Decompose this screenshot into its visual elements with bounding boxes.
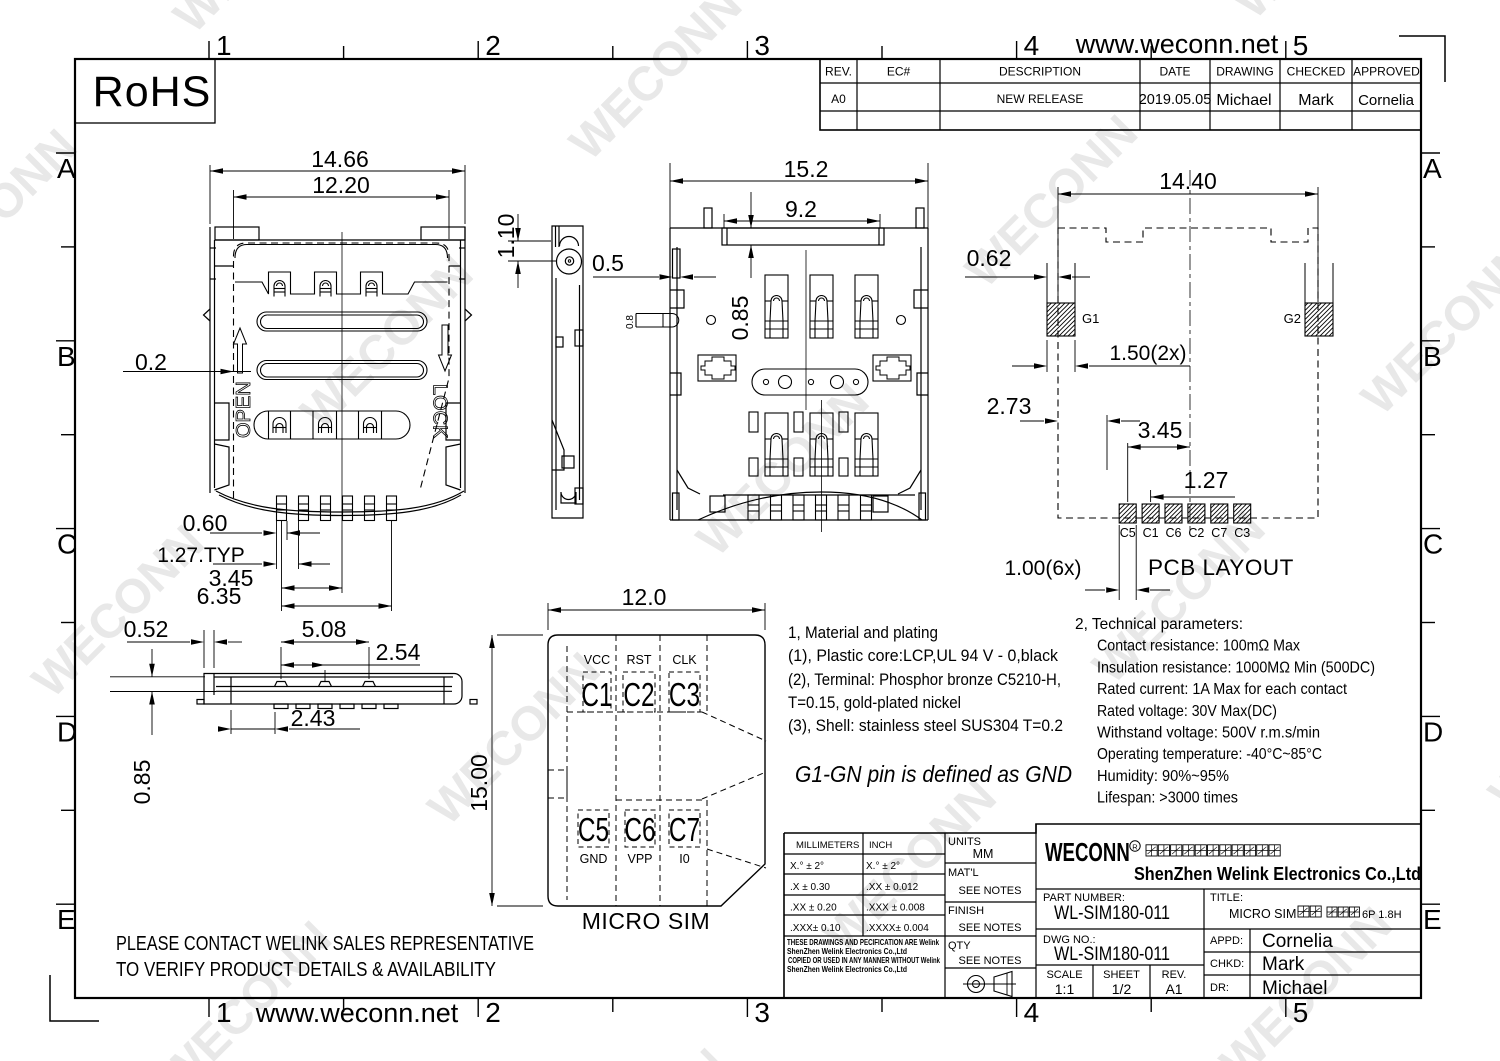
dim 2.73 xyxy=(1106,415,1108,470)
svg-text:B: B xyxy=(57,341,76,372)
svg-text:D: D xyxy=(57,716,77,747)
svg-text:9.2: 9.2 xyxy=(785,196,817,222)
svg-text:1:1: 1:1 xyxy=(1055,981,1075,997)
svg-text:0.85: 0.85 xyxy=(727,296,753,341)
svg-text:REV.: REV. xyxy=(825,65,852,79)
side view hinge xyxy=(557,249,582,274)
svg-text:NEW RELEASE: NEW RELEASE xyxy=(997,92,1084,106)
top view centerline xyxy=(341,232,343,530)
svg-text:1.50(2x): 1.50(2x) xyxy=(1109,342,1186,365)
svg-text:2: 2 xyxy=(485,30,501,61)
sim contact C7 xyxy=(669,810,700,847)
svg-text:VPP: VPP xyxy=(627,852,652,866)
third angle projection symbol xyxy=(968,976,985,993)
svg-text:.XX ± 0.012: .XX ± 0.012 xyxy=(866,882,919,893)
svg-text:.XXXX± 0.004: .XXXX± 0.004 xyxy=(866,923,929,934)
svg-text:A1: A1 xyxy=(1165,981,1182,997)
zone ticks and letters right xyxy=(1421,153,1443,935)
svg-text:MILLIMETERS: MILLIMETERS xyxy=(796,840,859,851)
sim contact C3 xyxy=(669,672,700,712)
pcb centerline xyxy=(1189,170,1191,530)
svg-text:C: C xyxy=(1423,529,1443,560)
svg-text:C7: C7 xyxy=(669,813,700,849)
sim card dashed grid xyxy=(548,635,766,906)
svg-text:DATE: DATE xyxy=(1159,65,1190,79)
top contact windows xyxy=(235,272,448,297)
svg-text:0.62: 0.62 xyxy=(967,245,1012,271)
svg-text:X.° ± 2°: X.° ± 2° xyxy=(866,861,900,872)
svg-text:0.5: 0.5 xyxy=(592,250,624,276)
svg-text:0.52: 0.52 xyxy=(124,616,169,642)
pad C3 xyxy=(1234,504,1251,523)
svg-text:12.0: 12.0 xyxy=(622,584,667,610)
svg-text:INCH: INCH xyxy=(869,840,892,851)
svg-text:Withstand voltage: 500V r.m.s/: Withstand voltage: 500V r.m.s/min xyxy=(1097,725,1320,742)
view: micro sim card xyxy=(548,635,765,906)
svg-text:LOCK: LOCK xyxy=(429,384,451,439)
dim 1.27.TYP xyxy=(276,540,278,569)
svg-text:CHKD:: CHKD: xyxy=(1210,958,1244,970)
svg-text:3: 3 xyxy=(754,30,770,61)
svg-text:MM: MM xyxy=(973,847,994,861)
svg-text:DRAWING: DRAWING xyxy=(1216,65,1274,79)
svg-text:SCALE: SCALE xyxy=(1046,969,1082,981)
dim 3.45 xyxy=(1127,443,1129,502)
pcb dashed outline xyxy=(1058,228,1318,518)
view: connector side view xyxy=(552,226,583,518)
dim 0.52 xyxy=(203,630,205,668)
svg-text:APPROVED: APPROVED xyxy=(1353,65,1420,79)
dim 12.20 xyxy=(233,190,235,239)
svg-text:SHEET: SHEET xyxy=(1103,969,1140,981)
svg-text:Insulation resistance: 1000MΩ: Insulation resistance: 1000MΩ Min (500DC… xyxy=(1097,659,1375,676)
dim 15.2 xyxy=(669,163,671,247)
svg-text:www.weconn.net: www.weconn.net xyxy=(1075,29,1279,59)
svg-text:VCC: VCC xyxy=(584,653,610,667)
lock arrow xyxy=(439,325,452,371)
dim 12.0 xyxy=(547,603,549,630)
zone ticks and numbers bottom xyxy=(209,997,1308,1028)
lower contact slot xyxy=(254,411,410,439)
svg-text:1: 1 xyxy=(216,30,232,61)
svg-text:C2: C2 xyxy=(1188,526,1204,540)
view: connector bottom view xyxy=(670,208,928,520)
units / material / finish / qty cells xyxy=(948,836,1021,967)
open arrow xyxy=(234,328,247,373)
svg-text:5: 5 xyxy=(1293,30,1309,61)
RoHS label box xyxy=(75,59,215,123)
svg-text:Cornelia: Cornelia xyxy=(1358,92,1415,109)
side solder pin 0.8 xyxy=(636,313,672,315)
dim 14.40 xyxy=(1057,187,1059,302)
svg-text:MICRO SIM: MICRO SIM xyxy=(582,908,710,934)
svg-text:ShenZhen Welink Electronics Co: ShenZhen Welink Electronics Co.,Ltd xyxy=(1134,864,1421,884)
svg-text:1/2: 1/2 xyxy=(1112,981,1132,997)
svg-text:1.00(6x): 1.00(6x) xyxy=(1004,557,1081,580)
logo chinese company name xyxy=(1146,845,1157,856)
svg-text:D: D xyxy=(1423,716,1443,747)
bottom view locator holes xyxy=(707,316,716,325)
svg-text:0.60: 0.60 xyxy=(183,510,228,536)
dim 1.00(6x) xyxy=(1118,525,1120,600)
svg-text:RoHS: RoHS xyxy=(93,68,212,116)
pad C2 xyxy=(1188,504,1205,523)
svg-text:2.54: 2.54 xyxy=(376,639,421,665)
pad C1 xyxy=(1142,504,1159,523)
svg-text:C3: C3 xyxy=(669,678,700,714)
svg-text:(2), Terminal: Phosphor bronze: (2), Terminal: Phosphor bronze C5210-H, xyxy=(788,670,1061,689)
svg-text:FINISH: FINISH xyxy=(948,905,984,917)
sim contact C1 xyxy=(583,672,611,712)
corner mark bottom-left xyxy=(50,975,99,1021)
cross cutout right xyxy=(873,355,911,381)
svg-text:SEE NOTES: SEE NOTES xyxy=(959,922,1022,934)
zone ticks and numbers top xyxy=(209,30,1308,61)
tolerance table text xyxy=(790,840,929,934)
svg-text:QTY: QTY xyxy=(948,940,971,952)
svg-text:5: 5 xyxy=(1293,997,1309,1028)
svg-text:.X ± 0.30: .X ± 0.30 xyxy=(790,882,830,893)
note: material and plating xyxy=(788,623,1063,735)
sim contact C2 xyxy=(623,672,655,712)
svg-text:Humidity: 90%~95%: Humidity: 90%~95% xyxy=(1097,768,1229,785)
svg-text:WL-SIM180-011: WL-SIM180-011 xyxy=(1054,944,1170,965)
svg-text:(1), Plastic core:LCP,UL 94 V: (1), Plastic core:LCP,UL 94 V - 0,black xyxy=(788,646,1058,665)
svg-text:C3: C3 xyxy=(1234,526,1250,540)
svg-text:MICRO SIM: MICRO SIM xyxy=(1229,907,1296,921)
svg-text:Cornelia: Cornelia xyxy=(1262,931,1333,952)
view: cross-section profile xyxy=(197,674,477,709)
bottom view upper contacts xyxy=(765,275,878,338)
svg-text:RST: RST xyxy=(627,653,652,667)
svg-text:T=0.15, gold-plated nickel: T=0.15, gold-plated nickel xyxy=(788,693,961,712)
svg-text:C2: C2 xyxy=(623,678,654,714)
svg-text:B: B xyxy=(1423,341,1442,372)
svg-text:ShenZhen Welink Electronics Co: ShenZhen Welink Electronics Co.,Ltd xyxy=(787,947,907,956)
title block xyxy=(784,824,1421,998)
bottom view terminal pins xyxy=(748,495,872,520)
svg-text:2, Technical parameters:: 2, Technical parameters: xyxy=(1075,616,1243,633)
revision table xyxy=(820,59,1421,130)
dim 1.50(2x) xyxy=(1046,340,1048,372)
svg-text:A0: A0 xyxy=(831,92,846,106)
svg-text:PCB LAYOUT: PCB LAYOUT xyxy=(1148,555,1294,580)
dim 15.00 xyxy=(497,634,543,636)
svg-text:2: 2 xyxy=(485,997,501,1028)
dim 3.45 xyxy=(281,521,283,593)
svg-text:TITLE:: TITLE: xyxy=(1210,892,1243,904)
svg-text:C6: C6 xyxy=(1166,526,1182,540)
svg-text:I0: I0 xyxy=(679,852,689,866)
svg-text:TO VERIFY PRODUCT DETAILS & AV: TO VERIFY PRODUCT DETAILS & AVAILABILITY xyxy=(116,959,496,981)
svg-text:A: A xyxy=(57,153,76,184)
svg-text:1: 1 xyxy=(216,997,232,1028)
corner mark top-right xyxy=(1399,36,1445,82)
sim contact C5 xyxy=(578,810,609,847)
svg-text:Operating temperature: -40°C~8: Operating temperature: -40°C~85°C xyxy=(1097,746,1322,763)
dim 6.35 xyxy=(281,593,283,611)
svg-text:(3), Shell: stainless steel SU: (3), Shell: stainless steel SUS304 T=0.2 xyxy=(788,716,1063,735)
svg-text:www.weconn.net: www.weconn.net xyxy=(255,998,459,1028)
svg-text:G2: G2 xyxy=(1284,311,1301,326)
svg-text:SEE NOTES: SEE NOTES xyxy=(959,955,1022,967)
dim 2.43 xyxy=(230,710,232,734)
dim 9.2 xyxy=(723,214,725,228)
svg-text:MAT'L: MAT'L xyxy=(948,867,979,879)
zone ticks and letters left xyxy=(56,153,77,935)
svg-text:5.08: 5.08 xyxy=(302,616,347,642)
svg-text:DR:: DR: xyxy=(1210,982,1229,994)
center stadium feature xyxy=(752,369,868,395)
svg-text:.XX ± 0.20: .XX ± 0.20 xyxy=(790,903,837,914)
pad C7 xyxy=(1211,504,1228,523)
svg-text:4: 4 xyxy=(1024,30,1040,61)
pad G1 xyxy=(1046,263,1048,303)
svg-text:E: E xyxy=(57,904,76,935)
svg-text:SEE NOTES: SEE NOTES xyxy=(959,885,1022,897)
svg-text:X.° ± 2°: X.° ± 2° xyxy=(790,861,824,872)
svg-text:WECONN: WECONN xyxy=(1045,838,1130,867)
svg-text:1.10: 1.10 xyxy=(493,214,519,259)
svg-text:ShenZhen Welink Electronics Co: ShenZhen Welink Electronics Co.,Ltd xyxy=(787,965,907,974)
svg-text:DESCRIPTION: DESCRIPTION xyxy=(999,65,1081,79)
svg-text:APPD:: APPD: xyxy=(1210,935,1243,947)
dim 0.60 xyxy=(276,521,278,540)
svg-text:3.45: 3.45 xyxy=(1138,417,1183,443)
svg-text:.XXX ± 0.008: .XXX ± 0.008 xyxy=(866,903,925,914)
cross cutout left xyxy=(698,355,736,381)
svg-text:Michael: Michael xyxy=(1262,978,1327,999)
svg-text:REV.: REV. xyxy=(1162,969,1187,981)
svg-text:THESE DRAWINGS AND PECIFICATIO: THESE DRAWINGS AND PECIFICATION ARE Weli… xyxy=(787,938,939,947)
svg-text:C6: C6 xyxy=(624,813,655,849)
note: technical parameters xyxy=(1075,616,1375,807)
svg-text:G1-GN pin is defined as GND: G1-GN pin is defined as GND xyxy=(795,761,1072,787)
top view shell outline xyxy=(204,227,472,516)
svg-text:EC#: EC# xyxy=(887,65,911,79)
svg-text:14.40: 14.40 xyxy=(1159,168,1217,194)
svg-text:4: 4 xyxy=(1024,997,1040,1028)
svg-text:2019.05.05: 2019.05.05 xyxy=(1139,92,1212,108)
svg-text:Rated voltage: 30V Max(DC): Rated voltage: 30V Max(DC) xyxy=(1097,703,1277,720)
svg-text:0.8: 0.8 xyxy=(625,315,636,329)
svg-text:A: A xyxy=(1423,153,1442,184)
svg-text:CLK: CLK xyxy=(672,653,697,667)
pad C5 xyxy=(1119,504,1136,523)
svg-text:COPIED OR USED IN ANY MANNER W: COPIED OR USED IN ANY MANNER WITHOUT Wel… xyxy=(788,956,940,965)
svg-text:Contact resistance: 100mΩ Max: Contact resistance: 100mΩ Max xyxy=(1097,638,1300,655)
svg-text:GND: GND xyxy=(580,852,608,866)
svg-text:0.85: 0.85 xyxy=(129,760,155,805)
svg-text:2.73: 2.73 xyxy=(987,393,1032,419)
svg-text:2.43: 2.43 xyxy=(291,705,336,731)
svg-text:C: C xyxy=(57,529,77,560)
svg-text:R: R xyxy=(1132,843,1138,852)
svg-text:1.27.TYP: 1.27.TYP xyxy=(157,544,245,567)
pad G2 xyxy=(1304,263,1306,303)
copyright note text xyxy=(787,938,940,974)
svg-text:Michael: Michael xyxy=(1216,92,1271,109)
svg-text:15.2: 15.2 xyxy=(784,156,829,182)
svg-text:PLEASE CONTACT WELINK SALES RE: PLEASE CONTACT WELINK SALES REPRESENTATI… xyxy=(116,933,534,955)
svg-text:C1: C1 xyxy=(581,678,612,714)
slot window 1 xyxy=(257,312,427,331)
bottom view centerline xyxy=(805,250,807,410)
svg-text:C7: C7 xyxy=(1211,526,1227,540)
svg-text:6.35: 6.35 xyxy=(197,583,242,609)
svg-text:12.20: 12.20 xyxy=(312,172,370,198)
dim 14.66 xyxy=(209,165,211,224)
dim 0.85 profile height xyxy=(110,676,205,678)
dim 1.27 xyxy=(1150,490,1152,502)
svg-text:15.00: 15.00 xyxy=(466,754,492,812)
svg-text:CHECKED: CHECKED xyxy=(1287,65,1346,79)
svg-text:Lifespan: >3000 times: Lifespan: >3000 times xyxy=(1097,790,1238,807)
svg-text:Mark: Mark xyxy=(1298,92,1335,109)
svg-text:3: 3 xyxy=(754,997,770,1028)
svg-text:C5: C5 xyxy=(1120,526,1136,540)
svg-text:Mark: Mark xyxy=(1262,954,1305,975)
svg-text:C1: C1 xyxy=(1143,526,1159,540)
svg-text:6P 1.8H: 6P 1.8H xyxy=(1362,909,1402,921)
bottom view lower contacts xyxy=(749,412,878,476)
svg-text:E: E xyxy=(1423,904,1442,935)
svg-text:C5: C5 xyxy=(578,813,609,849)
svg-text:Rated current: 1A Max for each: Rated current: 1A Max for each contact xyxy=(1097,681,1347,698)
pad C6 xyxy=(1165,504,1182,523)
view: connector top view xyxy=(0,0,1,1)
svg-text:1, Material and plating: 1, Material and plating xyxy=(788,623,938,642)
dim 1.10 xyxy=(508,240,551,242)
svg-text:G1: G1 xyxy=(1082,311,1099,326)
slot window 2 xyxy=(257,361,427,380)
svg-text:.XXX± 0.10: .XXX± 0.10 xyxy=(790,923,841,934)
dim 5.08 xyxy=(280,647,282,679)
sim contact C6 xyxy=(625,810,655,847)
drawing frame border xyxy=(75,59,1421,998)
svg-text:1.27: 1.27 xyxy=(1184,467,1229,493)
svg-text:OPEN: OPEN xyxy=(233,381,255,438)
svg-text:WL-SIM180-011: WL-SIM180-011 xyxy=(1054,903,1170,924)
dim 2.54 xyxy=(324,670,326,681)
svg-text:14.66: 14.66 xyxy=(311,146,369,172)
dim 0.85 bar height xyxy=(750,192,752,228)
top view terminal pins xyxy=(277,496,397,521)
